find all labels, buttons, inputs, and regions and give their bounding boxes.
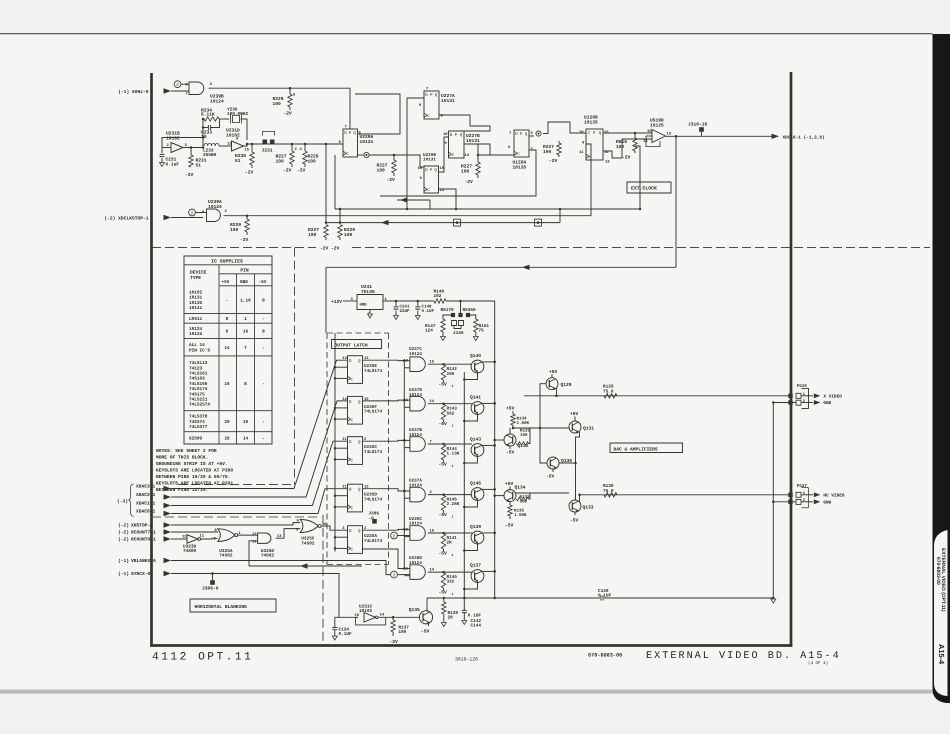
dashed box OUTPUT LATCH	[327, 333, 389, 565]
svg-text:124: 124	[425, 329, 433, 334]
svg-text:1,16: 1,16	[240, 299, 251, 304]
wire U237C output row	[428, 363, 472, 365]
resistor R151	[474, 319, 478, 332]
svg-text:74S02: 74S02	[261, 554, 275, 559]
svg-text:12: 12	[252, 532, 257, 537]
svg-text:9: 9	[226, 330, 229, 335]
svg-text:EXTERNAL VIDEO BD. A15-4: EXTERNAL VIDEO BD. A15-4	[646, 651, 841, 662]
wire U235A enable stub	[335, 536, 348, 538]
svg-text:82S09: 82S09	[189, 436, 203, 441]
binder white tab	[934, 530, 948, 696]
wire Q135 emitter	[428, 623, 430, 627]
svg-text:-5V: -5V	[505, 523, 514, 529]
svg-text:-: -	[226, 299, 229, 304]
wire U323D to U325A	[201, 537, 218, 540]
transistor Q137	[471, 570, 484, 583]
resistor R229 (top)	[289, 88, 291, 94]
svg-text:Q145: Q145	[470, 481, 481, 487]
wire oscillator feedback top	[162, 138, 203, 148]
svg-text:Q140: Q140	[470, 353, 481, 359]
wire feedback arrow upper	[397, 199, 430, 201]
U231C feedback loop	[355, 617, 385, 625]
svg-text:11: 11	[200, 534, 205, 539]
wire +5V supply rail	[383, 300, 434, 302]
wire Q132 top	[509, 428, 511, 434]
wire Q129 emitter to video line	[556, 389, 558, 396]
box EXT.CLOCK	[627, 182, 671, 193]
svg-text:10: 10	[418, 166, 423, 171]
svg-text:-5V: -5V	[439, 421, 448, 427]
svg-text:1: 1	[244, 317, 247, 322]
wire SYNCX	[171, 574, 339, 618]
svg-text:562: 562	[447, 411, 455, 416]
svg-text:Q129: Q129	[561, 382, 572, 388]
wire U239B output	[209, 88, 351, 129]
svg-text:Q134: Q134	[515, 485, 526, 491]
wire U239C inputs	[404, 528, 410, 530]
svg-text:-2V -2V: -2V -2V	[320, 246, 340, 252]
wire gnd rail right	[772, 403, 774, 599]
wire Q134 base from rail	[495, 495, 504, 497]
svg-text:-2V: -2V	[549, 158, 558, 164]
wire U239C output row	[428, 532, 472, 534]
svg-text:C148: C148	[422, 305, 433, 310]
dashed partition horizontal	[152, 247, 930, 249]
flip-flop U227A	[424, 91, 439, 119]
svg-text:74S00: 74S00	[183, 549, 197, 554]
svg-text:2.26K: 2.26K	[447, 502, 460, 507]
svg-text:-5V: -5V	[439, 512, 448, 518]
svg-text:(-2): (-2)	[118, 523, 129, 529]
table IC SUPPLIES	[184, 256, 272, 444]
transistor Q143	[471, 444, 484, 457]
schematic frame left border	[150, 73, 153, 647]
svg-text:10: 10	[443, 132, 448, 137]
wire U229B to U227B	[439, 137, 449, 172]
svg-text:100: 100	[273, 101, 282, 107]
svg-text:KEYSLOTS ARE LOCATED AT P301: KEYSLOTS ARE LOCATED AT P301	[156, 481, 233, 487]
svg-text:13: 13	[605, 160, 610, 165]
svg-text:A15-4: A15-4	[937, 644, 946, 665]
svg-text:12: 12	[182, 535, 187, 540]
wire xdac bundle	[171, 360, 348, 488]
svg-text:C241: C241	[400, 305, 411, 310]
wire divider bottom rail 2	[247, 215, 591, 217]
svg-text:-5V: -5V	[259, 280, 267, 285]
wire P526 gnd	[801, 402, 813, 404]
wire U229A Q to U229B	[358, 154, 365, 156]
svg-text:10: 10	[243, 420, 249, 425]
svg-text:14: 14	[380, 613, 385, 618]
svg-text:(-2) XDCLKSTOP-1: (-2) XDCLKSTOP-1	[104, 216, 148, 222]
svg-text:102: 102	[616, 144, 625, 150]
svg-text:0.1UF: 0.1UF	[468, 614, 482, 619]
svg-text:+12V: +12V	[331, 299, 342, 305]
svg-text:0.1UF: 0.1UF	[339, 632, 353, 637]
svg-text:-5V: -5V	[421, 629, 430, 635]
wire Q140 collector to rail	[482, 361, 495, 363]
svg-text:-5V: -5V	[506, 450, 515, 456]
resistor R145	[441, 495, 445, 511]
svg-text:8: 8	[244, 382, 247, 387]
capacitor C233	[203, 127, 208, 129]
svg-text:XDAC2-1: XDAC2-1	[136, 492, 156, 498]
resistor R227 (osc)	[291, 143, 294, 146]
resistor R137	[392, 616, 395, 619]
svg-text:R134: R134	[517, 417, 528, 422]
wire U237A output row	[428, 494, 472, 496]
svg-text:8: 8	[262, 330, 265, 335]
resistor R144	[441, 445, 445, 461]
wire Q137 collector to rail	[482, 570, 495, 572]
node circled 2 at U239B	[174, 81, 181, 88]
svg-text:EXT.CLOCK: EXT.CLOCK	[631, 186, 657, 192]
resistor R135	[509, 502, 511, 505]
svg-text:+5V: +5V	[506, 406, 515, 412]
wire divider bottom rail 1	[335, 208, 640, 210]
svg-text:J310-10: J310-10	[688, 122, 708, 128]
svg-text:XDAC1-1: XDAC1-1	[136, 501, 156, 507]
resistor R142	[441, 365, 445, 381]
svg-text:-2V: -2V	[297, 168, 306, 174]
svg-text:4112 OPT.11: 4112 OPT.11	[152, 652, 253, 664]
svg-text:14: 14	[224, 346, 230, 351]
svg-text:-2V: -2V	[245, 170, 254, 176]
wire U325C to U235A	[321, 526, 347, 530]
resistor R229 (under U239A)	[246, 216, 248, 219]
latch U235A	[348, 526, 363, 554]
inductor L233	[204, 143, 219, 146]
svg-text:74S02: 74S02	[219, 554, 233, 559]
node circled 2 at U239D	[391, 571, 398, 578]
svg-text:1.00K: 1.00K	[514, 513, 527, 518]
svg-text:-5V: -5V	[570, 518, 579, 524]
svg-text:670-6803-00: 670-6803-00	[588, 653, 622, 659]
wire U231D output	[244, 144, 344, 146]
svg-text:BETWEEN PINS 10/20 & 60/70.: BETWEEN PINS 10/20 & 60/70.	[156, 474, 230, 480]
svg-text:10131: 10131	[466, 138, 480, 144]
wire U235C enable stub	[335, 447, 348, 449]
wire U239D input	[363, 549, 405, 569]
wire Q129 base	[540, 384, 546, 428]
svg-text:100: 100	[276, 158, 285, 164]
wire U239D inputs	[404, 568, 410, 570]
flip-flop U128A	[514, 130, 529, 157]
svg-text:Q133: Q133	[583, 505, 594, 511]
svg-text:12: 12	[227, 142, 232, 147]
svg-text:100: 100	[377, 167, 386, 173]
svg-text:1: 1	[452, 514, 454, 518]
wire U237C inputs	[404, 360, 410, 362]
svg-text:10125: 10125	[650, 122, 664, 128]
svg-text:RS350: RS350	[463, 308, 477, 313]
wire latch clock rail	[334, 333, 336, 552]
svg-text:Q131: Q131	[583, 426, 594, 432]
svg-text:Q143: Q143	[470, 437, 481, 443]
svg-text:3810-126: 3810-126	[455, 657, 478, 663]
svg-text:100: 100	[308, 158, 317, 164]
wire U237D inputs	[404, 399, 410, 401]
svg-text:15: 15	[245, 148, 250, 153]
svg-text:20: 20	[224, 420, 230, 425]
svg-text:GND: GND	[240, 280, 248, 285]
svg-text:16: 16	[224, 382, 230, 387]
svg-text:1.13K: 1.13K	[447, 452, 460, 457]
gate U239B	[189, 82, 204, 95]
jumper J231	[263, 132, 275, 136]
svg-text:-2V: -2V	[622, 155, 631, 161]
dashed partition vertical upper	[294, 248, 296, 485]
svg-text:7: 7	[244, 346, 247, 351]
svg-text:100: 100	[461, 168, 470, 174]
svg-text:74LS377: 74LS377	[189, 425, 208, 430]
wire Q139 collector to rail	[482, 532, 495, 534]
gate U325C	[300, 520, 318, 533]
svg-text:16: 16	[243, 330, 249, 335]
svg-text:28: 28	[224, 437, 230, 442]
wire Q141 emitter to rail	[464, 414, 477, 421]
latch U235C	[348, 437, 363, 465]
dashed partition horizontal blanking area	[152, 516, 317, 518]
svg-text:-2V: -2V	[283, 168, 292, 174]
svg-text:1: 1	[452, 553, 454, 557]
svg-text:11: 11	[252, 540, 257, 545]
svg-text:74LS174: 74LS174	[364, 450, 382, 455]
capacitor C231	[162, 147, 171, 149]
node circled 2 at U239C	[391, 532, 398, 539]
wire Q131 base row	[513, 427, 569, 429]
wire feedback into U325D	[249, 565, 362, 567]
wire U227A input	[407, 97, 424, 99]
svg-text:100: 100	[230, 227, 239, 233]
via square 2	[535, 219, 542, 226]
svg-text:GND: GND	[823, 401, 831, 406]
svg-text:TYPE: TYPE	[190, 275, 201, 281]
wire Q132 base from rail	[495, 439, 504, 441]
svg-text:14: 14	[243, 437, 249, 442]
flip-flop U227B	[449, 131, 465, 158]
capacitor C241	[395, 300, 398, 303]
svg-text:51: 51	[196, 162, 202, 168]
input brace XDAC group	[129, 484, 134, 517]
svg-text:10124: 10124	[208, 204, 222, 210]
flip-flop U229A	[343, 129, 358, 157]
sheet top edge	[0, 33, 933, 35]
svg-text:74LS174: 74LS174	[364, 498, 382, 503]
svg-text:1.00K: 1.00K	[517, 421, 530, 426]
svg-text:-5V: -5V	[546, 474, 555, 480]
wire U227B to U128A	[464, 144, 490, 155]
svg-text:10131: 10131	[423, 158, 436, 163]
svg-text:OUTPUT LATCH: OUTPUT LATCH	[335, 343, 368, 349]
transistor Q145	[471, 488, 484, 501]
wire C140 line	[427, 597, 600, 599]
svg-text:LM311: LM311	[189, 317, 203, 322]
svg-text:GROUNDING STRIP IS AT +5V.: GROUNDING STRIP IS AT +5V.	[156, 461, 228, 467]
svg-text:74LS174: 74LS174	[364, 539, 382, 544]
svg-text:74LS174: 74LS174	[364, 369, 382, 374]
svg-text:GND: GND	[823, 501, 831, 506]
svg-text:22UF: 22UF	[400, 309, 411, 314]
svg-text:100: 100	[520, 500, 528, 505]
svg-text:8: 8	[226, 317, 229, 322]
svg-text:DAC & AMPLIFIERS: DAC & AMPLIFIERS	[614, 447, 658, 453]
transistor Q139	[471, 531, 484, 544]
svg-text:10124: 10124	[409, 352, 422, 357]
wire U231C out	[378, 616, 420, 618]
svg-text:SYNCX-0: SYNCX-0	[131, 571, 151, 577]
svg-text:Q137: Q137	[470, 563, 481, 569]
svg-text:R131: R131	[520, 429, 531, 434]
svg-text:+5V: +5V	[222, 280, 230, 285]
svg-text:10131: 10131	[360, 139, 374, 145]
flip-flop U129B	[586, 129, 603, 160]
svg-text:P527: P527	[797, 484, 808, 489]
resistor R231	[190, 148, 192, 156]
svg-text:XHSTOP-1: XHSTOP-1	[131, 523, 153, 529]
svg-text:GND: GND	[360, 303, 368, 308]
wire HC VIDEO line	[580, 494, 791, 496]
svg-text:RS170: RS170	[441, 308, 455, 313]
wire U325D to U325C	[276, 529, 301, 539]
svg-text:78L05: 78L05	[361, 289, 375, 295]
schematic frame bottom border	[150, 644, 792, 647]
wire Q145 collector to rail	[482, 488, 495, 490]
wire divider bottom rail 3	[326, 222, 560, 224]
svg-text:74LS257A: 74LS257A	[189, 403, 210, 408]
wire Q143 emitter to rail	[464, 456, 477, 463]
wire gate input rail	[403, 361, 405, 569]
svg-text:11: 11	[579, 150, 584, 155]
box DAC & AMPLIFIERS	[610, 443, 683, 453]
svg-text:X VIDEO: X VIDEO	[823, 395, 842, 400]
wire osc node A vertical	[202, 119, 204, 146]
svg-text:-2V: -2V	[465, 179, 474, 185]
svg-text:100: 100	[344, 232, 353, 238]
wire dac box top	[326, 266, 676, 268]
wire U239A output	[224, 215, 248, 217]
svg-text:-2V: -2V	[387, 177, 396, 183]
svg-text:20: 20	[448, 616, 454, 621]
svg-text:15: 15	[604, 130, 609, 135]
svg-text:J145: J145	[453, 331, 464, 336]
node wired-or at U128A	[536, 131, 541, 136]
wire R234 row	[204, 117, 219, 121]
wire U231B out to osc network	[183, 147, 203, 149]
svg-text:Q141: Q141	[470, 395, 481, 401]
wire divider feedback rail upper	[439, 115, 491, 131]
wire Q135 collector rail	[426, 598, 428, 612]
svg-text:1: 1	[452, 424, 454, 428]
svg-text:102: 102	[434, 294, 442, 299]
svg-text:XDAC3-1: XDAC3-1	[136, 484, 156, 490]
resistor R227 (div3)	[558, 141, 560, 143]
svg-text:10: 10	[579, 130, 584, 135]
wire rail risers	[325, 144, 327, 223]
svg-text:-5V: -5V	[439, 589, 448, 595]
svg-text:+5V: +5V	[570, 411, 579, 417]
wire Q140 emitter to rail	[464, 373, 477, 380]
wire U128A lower out	[380, 150, 536, 196]
svg-text:200: 200	[447, 372, 455, 377]
svg-text:Q139: Q139	[470, 524, 481, 530]
box HORIZONTAL BLANKING	[190, 599, 276, 612]
svg-text:10131: 10131	[441, 98, 455, 104]
svg-text:-5V: -5V	[439, 550, 448, 556]
wire P527 gnd	[773, 501, 796, 503]
svg-text:10102: 10102	[166, 136, 180, 142]
wire Q141 collector to rail	[482, 402, 495, 404]
wire Q134 to Q133 base row	[516, 492, 569, 494]
node wired-or at U229A output	[364, 152, 369, 157]
node circled 2 at U239A	[189, 209, 196, 216]
svg-text:332: 332	[447, 580, 455, 585]
wire Q130 connections	[559, 462, 576, 464]
latch U235F	[348, 396, 363, 424]
svg-text:-5V: -5V	[439, 461, 448, 467]
svg-text:100: 100	[520, 433, 528, 438]
resistor R235	[251, 147, 253, 152]
inverter U323D	[187, 535, 198, 544]
resistor R515	[634, 132, 637, 135]
svg-text:100: 100	[308, 232, 317, 238]
svg-text:265NH: 265NH	[203, 153, 217, 158]
svg-text:10124: 10124	[210, 98, 224, 104]
svg-text:C144: C144	[471, 624, 482, 629]
svg-text:0.1UF: 0.1UF	[598, 594, 612, 599]
dashed partition notes bottom	[178, 484, 295, 486]
svg-text:(-1) 50Hz-0: (-1) 50Hz-0	[118, 89, 149, 95]
resistor R143	[441, 404, 445, 420]
svg-text:8: 8	[262, 299, 265, 304]
resistor R227 (bottom pair)	[324, 225, 328, 238]
label OUTPUT LATCH	[332, 340, 382, 349]
wire U129B out	[603, 132, 652, 134]
wire X VIDEO line	[524, 395, 791, 397]
svg-text:2K: 2K	[447, 541, 453, 546]
wire Q139 emitter to rail	[464, 544, 477, 551]
wire X VIDEO arrow	[801, 395, 813, 397]
svg-text:1: 1	[452, 464, 454, 468]
svg-text:74S02: 74S02	[301, 541, 315, 546]
resistor R147	[441, 319, 445, 332]
wire VBLANKX	[171, 561, 391, 575]
svg-text:MORE OF THIS BLOCK.: MORE OF THIS BLOCK.	[156, 455, 208, 461]
capacitor C142 C144	[463, 598, 465, 610]
wire U229A top loop	[355, 94, 400, 134]
wire U237B inputs	[404, 439, 410, 441]
svg-text:0.1UF: 0.1UF	[422, 309, 435, 314]
svg-text:VBLANKX-0: VBLANKX-0	[131, 558, 156, 564]
svg-text:0.1uF: 0.1uF	[166, 161, 180, 167]
capacitor C134	[339, 616, 358, 618]
wire U237B output row	[428, 443, 472, 445]
transistor Q140	[471, 360, 484, 373]
svg-text:(-3): (-3)	[117, 499, 128, 505]
wire Q131 emitter down	[576, 432, 580, 500]
sheet bottom shadow	[0, 689, 950, 694]
wire U235E enable stub	[335, 366, 348, 368]
resistor R227 (div1)	[393, 155, 395, 160]
gate U239A	[207, 209, 221, 222]
resistor R139	[443, 597, 446, 600]
transistor Q141	[471, 402, 484, 415]
svg-text:100: 100	[543, 149, 552, 155]
gate U325D	[258, 533, 271, 543]
svg-text:670-6803-00: 670-6803-00	[935, 557, 941, 585]
resistor R227 (div2)	[477, 154, 480, 157]
svg-text:PIN IC'S: PIN IC'S	[189, 347, 210, 353]
